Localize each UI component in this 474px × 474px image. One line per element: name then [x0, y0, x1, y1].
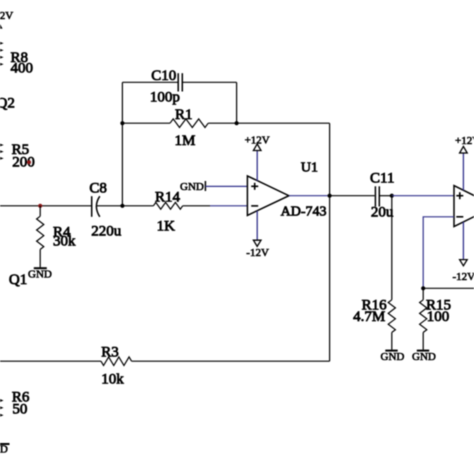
capacitor C8: [89, 181, 121, 240]
node (red junction at R4 tap): [38, 204, 42, 208]
wire feedback right vertical (C10 to R1): [236, 82, 238, 123]
wire C8 to R14: [97, 205, 154, 207]
transistor Q1 (label only): [9, 272, 27, 288]
power +12V (U1): [245, 134, 270, 181]
wire U1 output to C11: [330, 195, 375, 197]
svg-text:GND: GND: [412, 351, 436, 363]
wire R3 to left edge: [0, 360, 101, 362]
ground (below R16): [381, 351, 405, 363]
svg-text:GND: GND: [381, 351, 405, 363]
svg-text:U1: U1: [301, 160, 318, 175]
svg-text:R1: R1: [175, 107, 193, 123]
svg-text:100: 100: [427, 309, 450, 325]
svg-text:Q1: Q1: [9, 272, 27, 288]
svg-text:GND: GND: [180, 181, 204, 193]
wire R14 to U1 inverting input: [183, 205, 248, 207]
resistor R5 (clipped at left edge): [0, 140, 35, 171]
power -12V (U2): [453, 222, 474, 283]
svg-text:+12V: +12V: [245, 134, 270, 146]
svg-text:+12V: +12V: [455, 135, 474, 147]
svg-text:4.7M: 4.7M: [353, 309, 385, 325]
node (R15 feedback junction): [421, 286, 425, 290]
power -12V (U1): [246, 211, 269, 259]
svg-text:10k: 10k: [101, 372, 124, 388]
wire U2 feedback (to right edge): [423, 287, 474, 289]
svg-text:400: 400: [11, 61, 34, 77]
svg-text:Q2: Q2: [0, 96, 15, 112]
ground (bottom left, clipped): [0, 443, 10, 455]
capacitor C11: [370, 171, 394, 221]
svg-text:20u: 20u: [371, 205, 394, 221]
node (red junction near R5): [27, 160, 31, 164]
node (R1 left junction): [120, 121, 124, 125]
wire C11 to U2 non-inverting input: [392, 195, 454, 197]
wire U1 output: [289, 195, 330, 197]
resistor R16: [353, 196, 395, 350]
resistor R14: [153, 190, 182, 235]
ground (U1 non-inverting input): [180, 181, 247, 193]
svg-text:-12V: -12V: [453, 271, 474, 283]
svg-text:1K: 1K: [157, 218, 176, 234]
svg-text:GND: GND: [0, 443, 8, 455]
svg-text:100p: 100p: [150, 89, 180, 105]
svg-text:AD-743: AD-743: [281, 204, 327, 219]
ground (below R4): [28, 268, 52, 280]
node (C11 / R16 junction): [390, 194, 394, 198]
op-amp U2 (clipped at right edge): [454, 186, 474, 227]
wire feedback right vertical (R1 to R3): [329, 123, 331, 361]
node (U1 output junction): [328, 194, 332, 198]
resistor R6 (clipped at left edge): [0, 390, 30, 418]
svg-text:R14: R14: [155, 190, 181, 206]
svg-text:30k: 30k: [53, 233, 76, 249]
capacitor C10: [122, 68, 236, 106]
power +12V (U2): [455, 135, 474, 191]
resistor R15: [420, 288, 451, 350]
svg-text:GND: GND: [28, 268, 52, 280]
wire R3 feedback bottom: [132, 360, 330, 362]
svg-text:+12V: +12V: [0, 10, 13, 22]
svg-text:220u: 220u: [91, 223, 122, 239]
svg-text:1M: 1M: [175, 133, 196, 149]
power +12V (top left, clipped): [0, 10, 13, 40]
resistor R1: [122, 107, 329, 149]
wire main input: [0, 205, 92, 207]
wire feedback left vertical: [121, 82, 123, 206]
svg-text:C10: C10: [151, 68, 176, 84]
resistor R3: [101, 345, 132, 388]
svg-text:C11: C11: [370, 171, 394, 187]
svg-text:R3: R3: [101, 345, 119, 361]
op-amp U1 AD-743: [247, 160, 326, 219]
transistor Q2 (clipped, label only): [0, 96, 15, 112]
resistor R8 (clipped at left edge): [0, 38, 33, 77]
svg-text:-12V: -12V: [246, 247, 269, 259]
resistor R4: [37, 206, 76, 268]
svg-text:50: 50: [12, 402, 27, 418]
ground (below R15): [412, 351, 436, 363]
wire U2 inverting input to R15: [423, 217, 454, 288]
node (R1 right junction): [235, 121, 239, 125]
svg-text:C8: C8: [89, 181, 107, 197]
node (feedback tap junction): [120, 204, 124, 208]
svg-text:200: 200: [12, 155, 35, 171]
